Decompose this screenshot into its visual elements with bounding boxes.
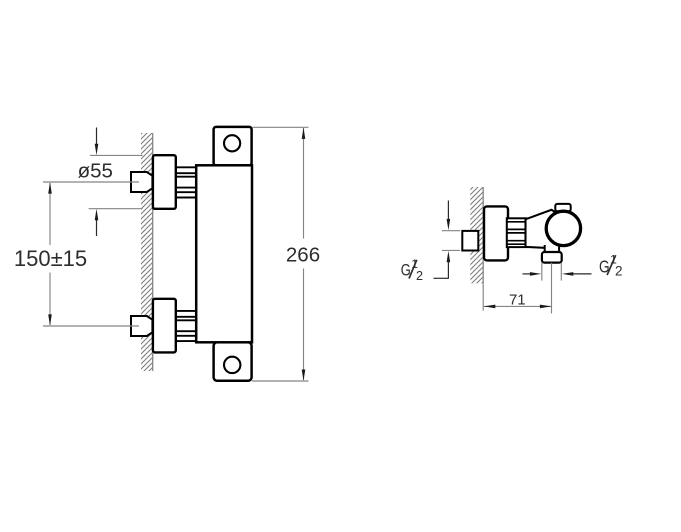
wall face line (side view) — [482, 187, 484, 283]
wall hatch (side view) — [470, 187, 483, 283]
left G½ upper arrow — [447, 201, 449, 221]
top tab hole — [224, 135, 240, 151]
dim 150±15 up arrowhead — [48, 182, 52, 193]
bottom connection threads — [176, 311, 196, 341]
mixer body (front view) — [196, 165, 252, 342]
dim 266 bottom extension line — [252, 380, 309, 382]
wall hatch (front view) — [141, 133, 153, 371]
housing top button — [555, 204, 570, 211]
dim 150±15 down arrowhead — [48, 314, 52, 325]
dim 150±15 top extension line — [43, 181, 139, 183]
top connection threads — [176, 167, 196, 197]
dim 71 wall extension line — [482, 283, 484, 310]
bottom mounting tab — [214, 342, 252, 381]
svg-text:2: 2 — [615, 264, 623, 279]
side supply fitting — [462, 231, 478, 251]
top mounting tab — [214, 127, 252, 165]
right G½ right arrow — [572, 273, 592, 275]
top escutcheon — [153, 155, 176, 209]
right G½ extension lines — [541, 263, 543, 281]
dim 150±15 bottom extension line — [43, 325, 139, 327]
outlet nut — [542, 252, 562, 263]
shower outlet neck — [545, 245, 560, 254]
valve body taper — [526, 210, 561, 248]
threaded connector (side view) — [507, 218, 527, 247]
bottom escutcheon — [153, 299, 176, 353]
label G½ (right) — [599, 253, 623, 279]
dim 266 dimension line — [303, 128, 305, 239]
dim ø55 top arrow — [96, 128, 98, 147]
left G½ bottom extension line — [442, 249, 460, 251]
side escutcheon — [484, 206, 508, 260]
dim 71 dimension line — [484, 305, 552, 307]
svg-text:ø55: ø55 — [78, 159, 113, 182]
dim 266 top extension line — [253, 126, 309, 128]
svg-text:266: 266 — [286, 243, 320, 266]
dim 266 down arrowhead — [302, 370, 306, 381]
bottom supply fitting — [131, 316, 152, 336]
bottom tab hole — [224, 357, 240, 373]
dim ø55 bottom arrow — [96, 219, 98, 237]
dim ø55 top extension line — [90, 154, 143, 156]
top supply fitting — [131, 172, 152, 192]
dim 266 up arrowhead — [302, 128, 306, 139]
left G½ top extension line — [442, 230, 460, 232]
right G½ left arrow — [523, 273, 532, 275]
svg-text:2: 2 — [416, 269, 423, 283]
svg-text:150±15: 150±15 — [14, 246, 87, 271]
dim 71 left arrowhead — [484, 305, 496, 309]
handle housing (side view circle) — [546, 211, 580, 245]
dim 150±15 dimension line — [49, 183, 51, 245]
left G½ lower arrow with leader — [447, 251, 451, 262]
svg-text:71: 71 — [509, 291, 526, 308]
label G½ (left) — [401, 257, 423, 283]
wall face line (front view) — [152, 133, 154, 371]
dim 71 right arrowhead — [540, 305, 552, 309]
dim 71 outlet center line — [551, 263, 553, 314]
dim ø55 bottom extension line — [89, 208, 143, 210]
